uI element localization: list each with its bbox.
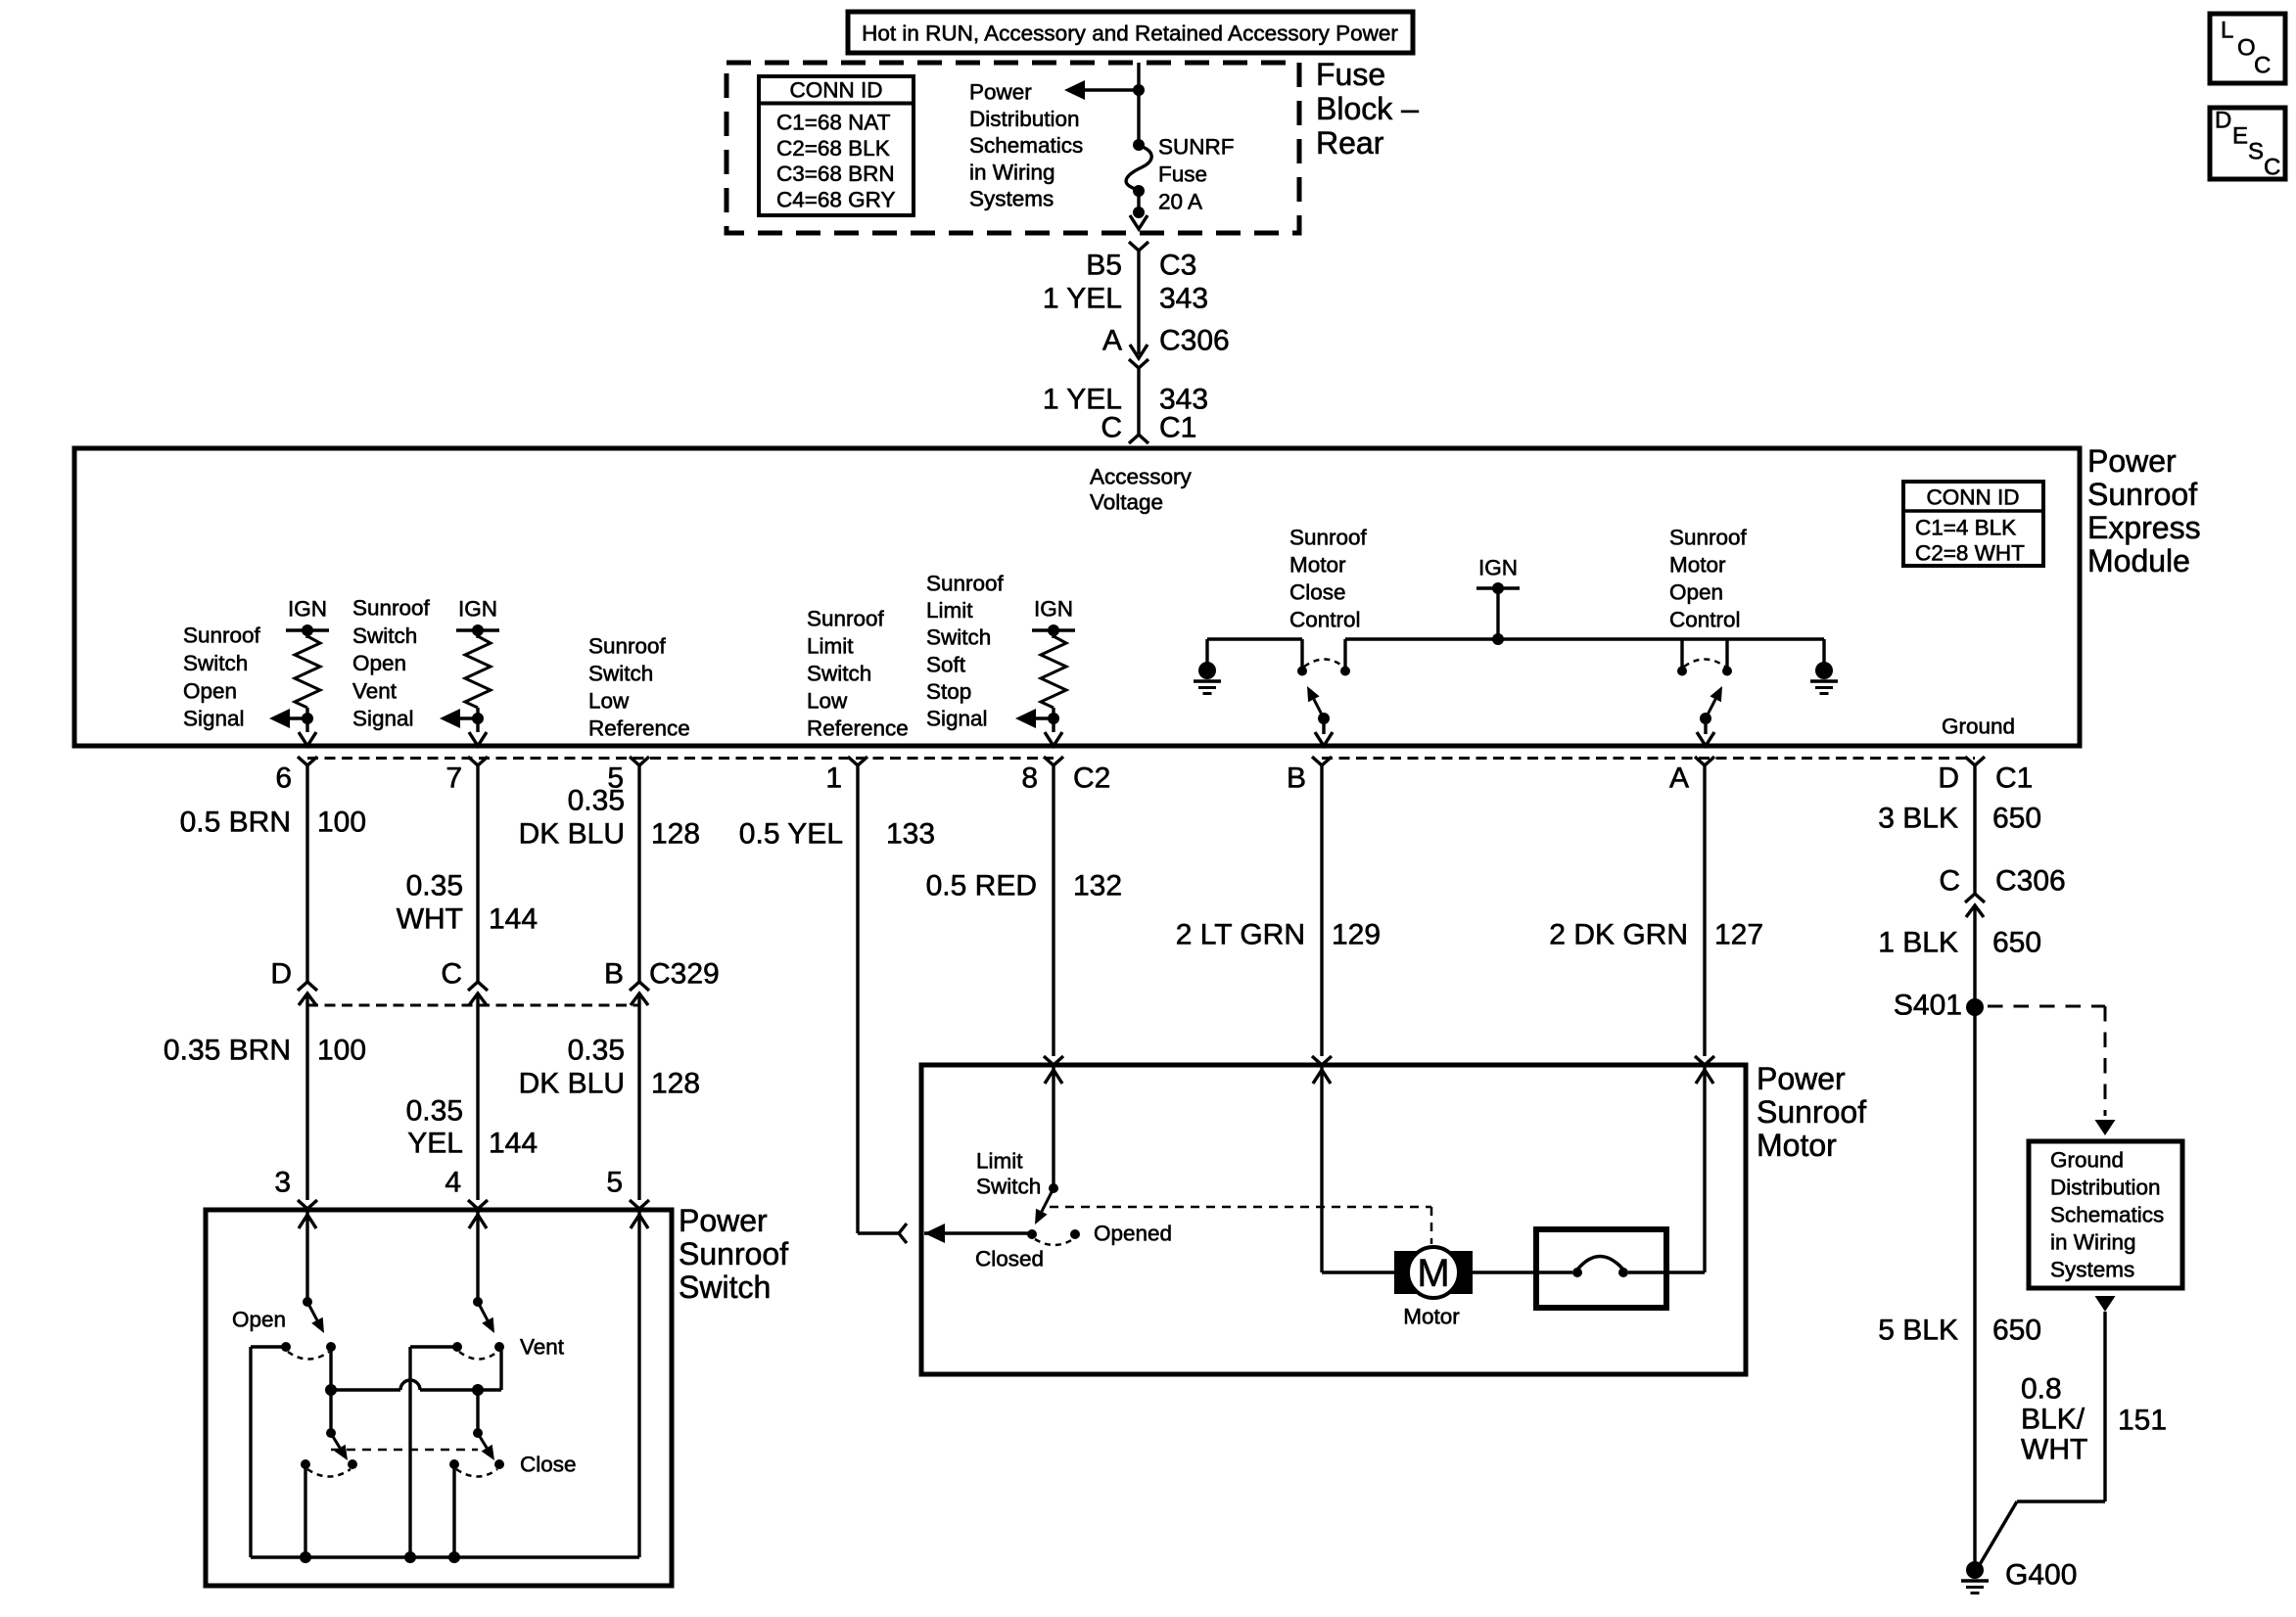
svg-text:IGN: IGN (1034, 597, 1073, 622)
svg-text:Hot in RUN, Accessory and Reta: Hot in RUN, Accessory and Retained Acces… (862, 22, 1398, 46)
svg-text:5 BLK: 5 BLK (1878, 1315, 1958, 1347)
svg-text:6: 6 (275, 762, 292, 795)
svg-text:Sunroof: Sunroof (1669, 526, 1748, 550)
svg-text:C3=68 BRN: C3=68 BRN (776, 162, 895, 186)
svg-text:2 LT GRN: 2 LT GRN (1176, 919, 1305, 951)
svg-text:Reference: Reference (807, 716, 909, 741)
svg-text:E: E (2232, 123, 2248, 150)
svg-text:128: 128 (651, 1068, 700, 1100)
svg-text:C2: C2 (1073, 762, 1110, 795)
svg-text:Ground: Ground (1942, 715, 2015, 739)
svg-text:Open: Open (232, 1308, 286, 1332)
svg-text:Sunroof: Sunroof (352, 596, 431, 621)
svg-text:A: A (1102, 325, 1122, 357)
svg-text:Reference: Reference (588, 716, 690, 741)
svg-text:100: 100 (317, 1035, 366, 1067)
svg-text:BLK/: BLK/ (2021, 1404, 2085, 1436)
svg-text:650: 650 (1992, 803, 2041, 835)
svg-text:in Wiring: in Wiring (2050, 1230, 2136, 1255)
svg-text:C1: C1 (1159, 412, 1196, 444)
svg-text:Block –: Block – (1316, 91, 1419, 126)
svg-text:Switch: Switch (976, 1175, 1041, 1199)
svg-text:151: 151 (2118, 1405, 2167, 1437)
svg-text:Sunroof: Sunroof (679, 1236, 788, 1271)
svg-text:Sunroof: Sunroof (183, 624, 261, 648)
svg-text:Motor: Motor (1757, 1128, 1837, 1163)
svg-text:Rear: Rear (1316, 125, 1384, 161)
svg-text:Low: Low (588, 689, 630, 714)
svg-text:2 DK GRN: 2 DK GRN (1549, 919, 1688, 951)
svg-text:Control: Control (1669, 608, 1741, 632)
svg-text:Switch: Switch (679, 1270, 771, 1305)
svg-text:Systems: Systems (969, 187, 1054, 211)
svg-text:Motor: Motor (1669, 553, 1726, 577)
svg-text:132: 132 (1073, 870, 1122, 902)
svg-text:Control: Control (1289, 608, 1361, 632)
svg-text:B: B (604, 958, 624, 991)
svg-text:0.35: 0.35 (406, 1095, 463, 1128)
svg-text:Power: Power (1757, 1061, 1846, 1096)
svg-text:IGN: IGN (288, 597, 327, 622)
svg-text:Switch: Switch (926, 625, 991, 650)
svg-text:Open: Open (183, 678, 237, 703)
svg-text:7: 7 (445, 762, 462, 795)
svg-text:B5: B5 (1086, 250, 1122, 282)
svg-text:1: 1 (825, 762, 842, 795)
svg-text:Module: Module (2087, 543, 2190, 578)
svg-text:C1=68 NAT: C1=68 NAT (776, 111, 891, 135)
svg-text:C306: C306 (1995, 865, 2066, 898)
svg-text:CONN ID: CONN ID (1927, 485, 2020, 510)
svg-text:C3: C3 (1159, 250, 1196, 282)
svg-text:Opened: Opened (1094, 1222, 1172, 1246)
svg-text:650: 650 (1992, 1315, 2041, 1347)
svg-text:C: C (441, 958, 462, 991)
svg-text:Closed: Closed (975, 1247, 1044, 1271)
svg-text:Power: Power (2087, 443, 2177, 479)
svg-text:0.35: 0.35 (568, 1035, 625, 1067)
svg-text:Low: Low (807, 689, 848, 714)
svg-text:Vent: Vent (352, 678, 398, 703)
svg-text:C: C (1939, 865, 1960, 898)
svg-text:SUNRF: SUNRF (1158, 135, 1235, 160)
svg-text:Signal: Signal (926, 707, 988, 731)
svg-text:Signal: Signal (352, 707, 414, 731)
svg-text:Close: Close (1289, 580, 1346, 605)
svg-text:100: 100 (317, 807, 366, 839)
svg-text:C4=68 GRY: C4=68 GRY (776, 187, 896, 211)
svg-text:0.5 YEL: 0.5 YEL (739, 818, 843, 851)
svg-text:D: D (270, 958, 292, 991)
svg-text:C: C (2254, 53, 2271, 79)
svg-text:G400: G400 (2005, 1559, 2077, 1592)
svg-text:0.35 BRN: 0.35 BRN (164, 1035, 291, 1067)
svg-text:Limit: Limit (807, 634, 854, 659)
svg-text:1 BLK: 1 BLK (1878, 927, 1958, 959)
svg-text:0.35: 0.35 (568, 785, 625, 817)
svg-text:Fuse: Fuse (1158, 162, 1207, 187)
svg-text:IGN: IGN (1478, 556, 1518, 580)
svg-text:0.35: 0.35 (406, 870, 463, 902)
svg-text:B: B (1287, 762, 1306, 795)
svg-text:Sunroof: Sunroof (807, 607, 885, 631)
svg-text:8: 8 (1021, 762, 1038, 795)
svg-text:133: 133 (886, 818, 935, 851)
svg-text:20 A: 20 A (1158, 190, 1202, 214)
svg-text:Open: Open (1669, 580, 1723, 605)
svg-text:O: O (2237, 35, 2256, 62)
svg-text:IGN: IGN (458, 597, 497, 622)
svg-text:Accessory: Accessory (1090, 465, 1193, 489)
svg-text:Switch: Switch (588, 662, 653, 686)
svg-text:L: L (2221, 18, 2233, 44)
svg-text:128: 128 (651, 818, 700, 851)
svg-text:Sunroof: Sunroof (1289, 526, 1368, 550)
svg-text:Schematics: Schematics (2050, 1203, 2164, 1227)
svg-text:Motor: Motor (1403, 1305, 1460, 1329)
svg-text:Express: Express (2087, 510, 2201, 545)
svg-text:C: C (1101, 412, 1122, 444)
svg-text:Power: Power (679, 1203, 768, 1238)
svg-text:C306: C306 (1159, 325, 1230, 357)
svg-text:WHT: WHT (2021, 1434, 2087, 1466)
svg-text:Close: Close (520, 1453, 577, 1477)
svg-text:0.8: 0.8 (2021, 1373, 2062, 1406)
svg-text:C2=8 WHT: C2=8 WHT (1915, 541, 2025, 566)
svg-text:A: A (1669, 762, 1689, 795)
svg-text:Distribution: Distribution (969, 107, 1080, 131)
svg-text:DK BLU: DK BLU (519, 1068, 625, 1100)
svg-text:C2=68 BLK: C2=68 BLK (776, 136, 890, 161)
svg-text:Fuse: Fuse (1316, 57, 1385, 92)
svg-text:3: 3 (274, 1167, 291, 1199)
svg-text:C1=4 BLK: C1=4 BLK (1915, 516, 2016, 540)
svg-text:Open: Open (352, 651, 406, 675)
svg-text:C1: C1 (1995, 762, 2033, 795)
svg-text:CONN ID: CONN ID (790, 78, 883, 103)
svg-text:144: 144 (489, 903, 538, 936)
svg-text:S401: S401 (1894, 990, 1962, 1022)
svg-text:Signal: Signal (183, 707, 245, 731)
svg-text:127: 127 (1714, 919, 1763, 951)
svg-text:Soft: Soft (926, 652, 966, 676)
svg-text:C: C (2264, 155, 2280, 181)
svg-text:DK BLU: DK BLU (519, 818, 625, 851)
svg-text:343: 343 (1159, 283, 1208, 315)
svg-text:Sunroof: Sunroof (1757, 1094, 1866, 1130)
svg-text:3 BLK: 3 BLK (1878, 803, 1958, 835)
svg-text:Power: Power (969, 80, 1032, 105)
svg-text:129: 129 (1332, 919, 1381, 951)
svg-text:D: D (1938, 762, 1959, 795)
svg-text:M: M (1417, 1252, 1449, 1295)
svg-text:Schematics: Schematics (969, 133, 1083, 158)
svg-text:Ground: Ground (2050, 1148, 2124, 1173)
svg-text:Switch: Switch (352, 624, 417, 648)
svg-text:Sunroof: Sunroof (588, 634, 667, 659)
svg-text:650: 650 (1992, 927, 2041, 959)
svg-text:Limit: Limit (976, 1149, 1023, 1174)
svg-text:Stop: Stop (926, 679, 971, 704)
svg-text:in Wiring: in Wiring (969, 160, 1055, 184)
svg-text:Switch: Switch (807, 662, 871, 686)
svg-text:144: 144 (489, 1128, 538, 1160)
svg-text:4: 4 (445, 1167, 461, 1199)
svg-text:Sunroof: Sunroof (2087, 477, 2197, 512)
svg-text:Systems: Systems (2050, 1258, 2134, 1282)
svg-text:1 YEL: 1 YEL (1043, 283, 1122, 315)
svg-text:Motor: Motor (1289, 553, 1346, 577)
svg-text:C329: C329 (649, 958, 720, 991)
svg-text:YEL: YEL (407, 1128, 463, 1160)
svg-text:5: 5 (606, 1167, 623, 1199)
svg-text:Vent: Vent (520, 1335, 565, 1360)
svg-text:Voltage: Voltage (1090, 490, 1163, 515)
svg-text:0.5 RED: 0.5 RED (926, 870, 1037, 902)
svg-text:WHT: WHT (397, 903, 463, 936)
svg-text:Distribution: Distribution (2050, 1176, 2161, 1200)
svg-text:Sunroof: Sunroof (926, 572, 1005, 596)
svg-text:Limit: Limit (926, 598, 973, 623)
svg-text:D: D (2215, 108, 2231, 134)
svg-text:S: S (2248, 139, 2264, 165)
svg-text:Switch: Switch (183, 651, 248, 675)
svg-text:0.5 BRN: 0.5 BRN (180, 807, 291, 839)
